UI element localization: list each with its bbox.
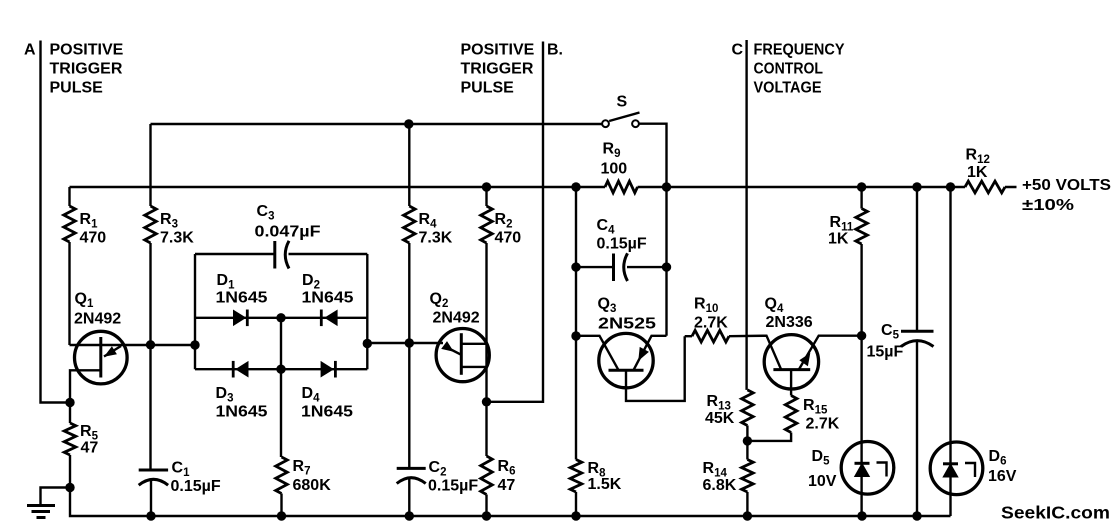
wire: diode box to Q2 emitter [367,342,443,344]
wire: diode box right side [366,254,368,369]
svg-text:0.15µF: 0.15µF [171,478,221,495]
resistor R15 [785,396,797,433]
node: R5/ground junction [65,483,74,492]
zener diode D6 (16V) [930,442,983,495]
wire: +50V supply rail [70,186,1017,188]
node: C4 left junction [571,262,580,271]
wire: Q3 base riser to R10 [685,335,692,337]
capacitor C1 [139,469,168,472]
wire: R14 to bottom rail [746,492,748,516]
diode D2 (1N645) [324,310,337,327]
wire: R13 to R14 [746,426,748,460]
resistor R4 [404,206,416,243]
svg-text:1N645: 1N645 [216,404,268,421]
svg-text:1K: 1K [967,164,988,181]
wire: R3 branch from top bus [149,124,151,206]
node: rail-C5 junction [912,182,921,191]
switch S [602,120,609,127]
wire: bottom ground rail [70,488,951,517]
transistor Q2 (2N492 UJT) [436,329,489,382]
wire: R3 down to C1 [149,243,151,469]
svg-text:10V: 10V [808,473,837,490]
wire: diode row 1 [195,317,367,319]
ground symbol [27,504,55,507]
svg-text:1N645: 1N645 [301,404,353,421]
resistor R7 [276,457,288,494]
svg-text:±10%: ±10% [1022,197,1074,214]
input line B (wire) [487,42,544,402]
node: rail-R8/C4 branch junction [571,182,580,191]
wire: R5 to ground rail [69,455,71,488]
svg-text:470: 470 [80,230,107,247]
node: R7-bottom rail junction [277,511,286,520]
node: Q1 emitter wire junction [146,340,155,349]
wire: top trigger bus (y=124) [151,123,602,125]
svg-text:16V: 16V [988,468,1017,485]
node: top bus-R4 junction [404,119,413,128]
wire: collector node down through D5 [860,336,862,516]
resistor R10 [692,330,729,342]
wire: rail to R11 [860,187,862,209]
svg-text:S: S [617,94,628,111]
node: box left mid junction [190,340,199,349]
node: box right mid junction [363,339,372,348]
node: rail-D6 junction [946,182,955,191]
transistor Q3 (2N525) [599,333,653,387]
resistor R13 [742,390,754,426]
node: D5-bottom rail junction [857,511,866,520]
wire: R2 down through Q2 to R6 [485,243,487,456]
resistor R9 (in rail) [605,181,638,193]
label: +50 VOLTS +/-10% [1022,177,1111,214]
resistor R5 [64,423,76,455]
label: POSITIVE TRIGGER PULSE (input A) [50,42,124,97]
svg-text:470: 470 [495,230,522,247]
node: Q1 base-1 / line A junction [65,398,74,407]
wire: R6 to bottom rail [485,495,487,517]
label: FREQUENCY CONTROL VOLTAGE (input C) [754,42,845,97]
resistor R14 [742,460,754,493]
node: rail-R2 junction [482,182,491,191]
resistor R11 [856,209,868,245]
zener diode D5 (10V) [841,442,894,495]
svg-text:6.8K: 6.8K [703,477,737,494]
svg-text:C: C [732,42,744,59]
node: R13/R14/R15 junction [743,436,752,445]
capacitor C5 [901,330,934,333]
node: rail-R9/switch junction [662,182,671,191]
svg-text:7.3K: 7.3K [160,230,194,247]
wire: rail down to C4/Q3/R8 [575,187,577,460]
svg-text:0.15µF: 0.15µF [428,478,478,495]
wire: R10 to Q4 emitter [729,336,781,370]
input line C (wire) [745,40,747,390]
node: diode row2 center junction [276,365,285,374]
diode D4 (1N645) [321,361,334,378]
svg-text:1.5K: 1.5K [588,476,622,493]
svg-text:+50 VOLTS: +50 VOLTS [1022,177,1111,194]
wire: rail to R2 [485,187,487,206]
node: Q2 base-1 / line B junction [482,397,491,406]
node: C2-bottom rail junction [405,511,414,520]
svg-text:POSITIVE: POSITIVE [50,42,124,59]
wire: diode box top (C3 row) [195,253,367,255]
svg-text:FREQUENCY: FREQUENCY [754,42,845,59]
wire: switch to R9 right node [639,124,667,336]
svg-text:2N525: 2N525 [598,316,656,333]
node: R14-bottom rail junction [743,511,752,520]
wire: diode row 2 [195,368,367,370]
svg-text:2N492: 2N492 [74,311,121,328]
wire: R15 to R13/R14 junction [747,433,791,441]
svg-text:1N645: 1N645 [216,290,268,307]
wire: Q4 base lead to R15 [790,370,792,396]
svg-text:1N645: 1N645 [302,290,354,307]
svg-text:CONTROL: CONTROL [754,61,824,78]
svg-text:45K: 45K [705,410,735,427]
node: diode row1 center junction [276,313,285,322]
svg-text:B.: B. [547,42,563,59]
resistor R8 [570,460,582,493]
svg-text:47: 47 [498,477,516,494]
svg-text:TRIGGER: TRIGGER [461,61,534,78]
svg-text:2.7K: 2.7K [694,315,728,332]
wire: rail down to C5 [916,187,918,332]
diode D1 (1N645) [233,310,246,327]
node: C4 right junction [662,262,671,271]
resistor R6 [481,456,493,495]
node: Q3 emitter junction [571,331,580,340]
svg-text:2N492: 2N492 [433,310,480,327]
wire: R4 down to C2 [408,243,410,468]
node: R8-bottom rail junction [571,511,580,520]
svg-text:680K: 680K [293,477,332,494]
input line A (wire) [41,41,71,403]
diode D3 (1N645) [235,361,248,378]
wire: R8 to bottom rail [575,492,577,516]
svg-text:47: 47 [81,440,99,457]
node: C2 branch junction [405,338,414,347]
label: POSITIVE TRIGGER PULSE (input B) [461,42,535,97]
wire: junction to R5 [69,403,71,424]
node: rail-R11 junction [857,182,866,191]
node: R6-bottom rail junction [482,511,491,520]
node: Q4 collector junction [857,331,866,340]
transistor Q4 (2N336) [764,335,818,389]
resistor R1 [64,206,76,242]
wire: diode center column to R7 [280,318,282,457]
resistor R3 [145,206,157,243]
wire: Q1 emitter to diode box [151,344,196,346]
wire: rail corner down to R1 [68,187,70,206]
wire: R11 to Q4 collector node [860,244,862,336]
svg-text:100: 100 [601,161,628,178]
svg-text:SeekIC.com: SeekIC.com [1001,503,1110,523]
resistor R12 (in rail) [965,181,1005,193]
svg-text:2N336: 2N336 [766,314,813,331]
node: C1-bottom rail junction [146,511,155,520]
svg-text:TRIGGER: TRIGGER [50,61,123,78]
svg-text:PULSE: PULSE [461,80,515,97]
svg-text:1K: 1K [828,231,849,248]
svg-text:A: A [24,42,36,59]
wire: rail down through D6 [949,187,951,516]
capacitor C2 [397,467,426,470]
svg-text:POSITIVE: POSITIVE [461,42,535,59]
svg-text:2.7K: 2.7K [806,416,840,433]
wire: ground stub [41,488,71,506]
wire: Q3 base lead [626,336,685,401]
wire: diode box left side [194,254,196,369]
wire: R7 to bottom rail [280,494,282,517]
svg-text:0.047µF: 0.047µF [255,224,321,241]
svg-text:0.15µF: 0.15µF [597,236,647,253]
node: C5-bottom rail junction [912,511,921,520]
resistor R2 [481,206,493,243]
wire: R1 to Q1 base-2 stub [68,242,70,345]
capacitor C3 [273,241,276,269]
capacitor C4 [576,266,613,268]
svg-text:VOLTAGE: VOLTAGE [754,80,822,97]
svg-text:15µF: 15µF [867,344,904,361]
wire: R4 branch from top bus [408,124,410,206]
transistor Q1 (2N492 UJT) [75,331,128,384]
svg-text:PULSE: PULSE [50,80,104,97]
svg-text:7.3K: 7.3K [419,230,453,247]
